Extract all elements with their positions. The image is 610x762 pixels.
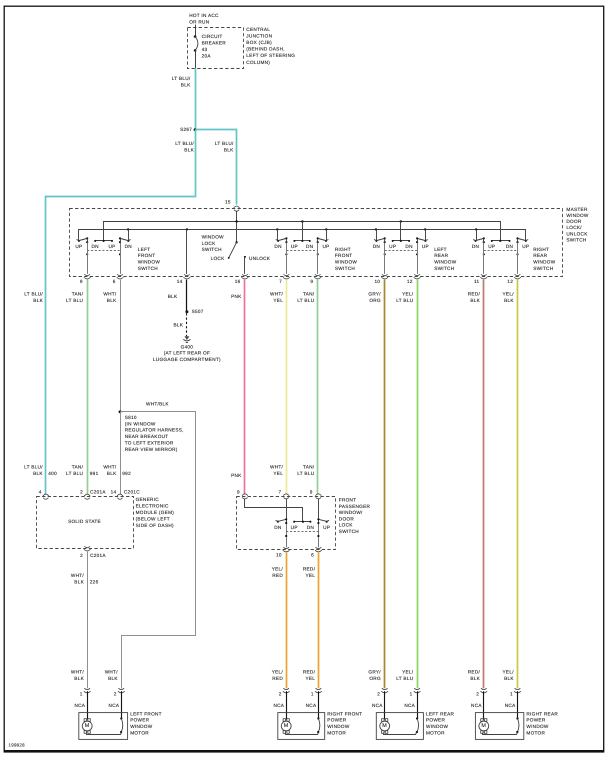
outer contact stubs from lower bus [128, 229, 130, 241]
svg-text:(BELOW LEFT: (BELOW LEFT [136, 517, 170, 522]
svg-text:S810: S810 [125, 415, 137, 420]
svg-text:15: 15 [225, 200, 231, 205]
svg-text:WINDOW: WINDOW [526, 724, 549, 729]
svg-text:TO LEFT EXTERIOR: TO LEFT EXTERIOR [125, 441, 174, 446]
svg-text:REGULATOR HARNESS,: REGULATOR HARNESS, [125, 428, 184, 433]
svg-text:NCA: NCA [74, 703, 85, 708]
wire BLK S507 to ground G400 [186, 313, 188, 336]
svg-text:BLK: BLK [504, 676, 514, 681]
svg-text:TAN/: TAN/ [303, 292, 315, 297]
svg-text:M: M [85, 723, 90, 729]
right front power window motor connector pins [284, 689, 289, 690]
svg-text:LOCK: LOCK [339, 523, 353, 528]
svg-text:LT BLU: LT BLU [297, 298, 314, 303]
svg-text:S507: S507 [192, 309, 204, 314]
power bus upper [104, 222, 501, 241]
svg-text:6: 6 [311, 553, 314, 558]
svg-text:SWITCH: SWITCH [566, 237, 586, 242]
left rear power window motor internal return path [416, 717, 418, 719]
svg-text:RED/: RED/ [303, 566, 316, 571]
wire RED/BLK pin 11 to right rear motor [483, 280, 485, 689]
svg-text:14: 14 [111, 489, 117, 494]
svg-text:NCA: NCA [273, 703, 284, 708]
svg-text:MOTOR: MOTOR [327, 730, 346, 735]
svg-text:RIGHT: RIGHT [335, 247, 351, 252]
svg-text:TAN/: TAN/ [303, 464, 315, 469]
svg-text:LT BLU: LT BLU [66, 471, 83, 476]
svg-text:FRONT: FRONT [339, 498, 357, 503]
master switch pin 16 [242, 275, 247, 276]
svg-text:M: M [284, 723, 289, 729]
svg-text:BLK: BLK [470, 676, 480, 681]
svg-text:BLK: BLK [504, 298, 514, 303]
svg-text:RED/: RED/ [468, 669, 481, 674]
svg-text:992: 992 [122, 471, 131, 476]
svg-text:SWITCH: SWITCH [533, 266, 553, 271]
svg-text:MOTOR: MOTOR [526, 730, 545, 735]
svg-text:OR RUN: OR RUN [189, 19, 209, 24]
svg-text:LT BLU/: LT BLU/ [172, 76, 191, 81]
svg-text:C201A: C201A [90, 489, 106, 494]
wire TAN/LT BLU pin 9 to front passenger switch [317, 280, 319, 494]
svg-text:DN: DN [274, 244, 281, 249]
svg-text:12: 12 [407, 279, 413, 284]
wire LT BLU/BLK from CJB down to splice S267 [195, 68, 197, 130]
svg-text:BLK: BLK [74, 676, 84, 681]
svg-text:YEL: YEL [273, 471, 283, 476]
svg-text:RED/: RED/ [303, 669, 316, 674]
svg-text:1: 1 [410, 692, 413, 697]
svg-text:RIGHT FRONT: RIGHT FRONT [327, 711, 362, 716]
svg-text:TAN/: TAN/ [72, 292, 84, 297]
svg-text:2: 2 [80, 553, 83, 558]
svg-text:9: 9 [310, 279, 313, 284]
svg-text:(BEHIND DASH,: (BEHIND DASH, [246, 47, 285, 52]
ground stub from lower bus to pin 14 [186, 229, 188, 274]
svg-text:2: 2 [377, 692, 380, 697]
svg-text:991: 991 [90, 471, 99, 476]
svg-text:SWITCH: SWITCH [202, 247, 222, 252]
right front power window motor leads [286, 691, 288, 719]
wire LT BLU/BLK branch from S267 to window lock switch pin 15 [196, 130, 237, 205]
svg-text:2: 2 [80, 489, 83, 494]
wire YEL/RED pin 10 to right front motor [286, 553, 288, 689]
svg-text:1: 1 [510, 692, 513, 697]
svg-text:LOCK/: LOCK/ [566, 225, 582, 230]
svg-text:C201C: C201C [124, 489, 140, 494]
svg-text:WINDOW: WINDOW [335, 260, 358, 265]
svg-text:FRONT: FRONT [335, 253, 353, 258]
svg-text:6: 6 [113, 279, 116, 284]
power bus lower [79, 230, 526, 241]
svg-text:DOOR: DOOR [566, 219, 582, 224]
svg-text:YEL/: YEL/ [272, 566, 284, 571]
svg-text:WINDOW: WINDOW [130, 724, 153, 729]
svg-text:JUNCTION: JUNCTION [246, 34, 272, 39]
svg-text:2: 2 [114, 692, 117, 697]
svg-text:BREAKER: BREAKER [202, 40, 227, 45]
svg-text:4: 4 [39, 489, 42, 494]
svg-text:BLK: BLK [224, 147, 234, 152]
left front power window motor leads [87, 691, 89, 719]
svg-text:400: 400 [48, 471, 57, 476]
svg-text:LEFT: LEFT [138, 247, 151, 252]
svg-text:WHT/BLK: WHT/BLK [146, 402, 169, 407]
svg-text:LEFT: LEFT [434, 247, 447, 252]
svg-text:1: 1 [80, 692, 83, 697]
svg-text:BLK: BLK [33, 471, 43, 476]
bus junction dots [235, 220, 237, 222]
left front power window motor box [79, 713, 128, 740]
left rear window switch rocker contacts and blades [393, 240, 409, 242]
splice S810 [119, 410, 122, 413]
svg-text:DN: DN [125, 244, 132, 249]
svg-text:S267: S267 [180, 127, 192, 132]
master window/door lock switch dashed box [70, 209, 563, 277]
svg-text:2: 2 [476, 692, 479, 697]
svg-text:GRY/: GRY/ [368, 292, 381, 297]
svg-text:WINDOW/: WINDOW/ [339, 510, 363, 515]
svg-text:WHT/: WHT/ [103, 464, 117, 469]
svg-text:LUGGAGE COMPARTMENT): LUGGAGE COMPARTMENT) [153, 357, 221, 362]
right rear window switch rocker contacts and blades [492, 240, 510, 242]
svg-text:199828: 199828 [9, 743, 26, 748]
front passenger switch pins 10 and 6 [284, 548, 289, 549]
svg-text:YEL: YEL [273, 298, 283, 303]
svg-text:YEL: YEL [305, 573, 315, 578]
svg-text:POWER: POWER [130, 718, 149, 723]
svg-text:9: 9 [80, 279, 83, 284]
svg-text:LT BLU/: LT BLU/ [175, 141, 194, 146]
svg-text:YEL: YEL [305, 676, 315, 681]
svg-text:POWER: POWER [327, 718, 346, 723]
svg-text:BLK: BLK [33, 298, 43, 303]
wire WHT/BLK pin 6 to splice S810 [120, 280, 122, 412]
svg-text:DN: DN [506, 244, 513, 249]
svg-text:C201A: C201A [90, 553, 106, 558]
svg-text:NCA: NCA [109, 703, 120, 708]
master switch pin 10 [382, 275, 387, 276]
svg-text:BLK: BLK [108, 676, 118, 681]
svg-text:RED: RED [272, 573, 283, 578]
GEM output pin 2 C201A [85, 547, 90, 548]
master switch pin 6 [117, 275, 122, 276]
right rear power window motor connector pins [481, 689, 486, 690]
left front power window motor armature [82, 721, 92, 731]
svg-text:RIGHT REAR: RIGHT REAR [526, 711, 558, 716]
svg-text:WINDOW: WINDOW [426, 724, 449, 729]
splice S267 [194, 128, 197, 131]
svg-text:10: 10 [276, 553, 282, 558]
svg-text:WINDOW: WINDOW [434, 260, 457, 265]
svg-text:BLK: BLK [181, 83, 191, 88]
svg-text:MOTOR: MOTOR [130, 730, 149, 735]
svg-text:DN: DN [373, 244, 380, 249]
svg-text:MOTOR: MOTOR [426, 730, 445, 735]
svg-text:BLK: BLK [168, 294, 178, 299]
svg-text:7: 7 [279, 489, 282, 494]
svg-text:(AT LEFT REAR OF: (AT LEFT REAR OF [164, 351, 210, 356]
wire WHT/YEL pin 7 to front passenger switch [286, 280, 288, 494]
centre-tie feeds from upper bus [302, 222, 304, 241]
svg-text:WINDOW: WINDOW [566, 213, 589, 218]
central junction box dashed outline [188, 28, 244, 69]
right rear power window motor internal return path [516, 717, 518, 719]
svg-text:MODULE (GEM): MODULE (GEM) [136, 510, 175, 515]
svg-text:POWER: POWER [526, 718, 545, 723]
wire WHT/BLK S810 to GEM pin 14 [120, 412, 122, 494]
svg-text:UP: UP [422, 244, 429, 249]
svg-text:1: 1 [311, 692, 314, 697]
svg-text:BOX (CJB): BOX (CJB) [246, 40, 272, 45]
svg-text:14: 14 [177, 279, 183, 284]
svg-text:20A: 20A [202, 53, 212, 58]
svg-text:RED: RED [272, 676, 283, 681]
svg-text:LOCK: LOCK [211, 256, 225, 261]
svg-text:YEL/: YEL/ [402, 669, 414, 674]
svg-text:UNLOCK: UNLOCK [566, 231, 588, 236]
svg-text:NCA: NCA [505, 703, 516, 708]
svg-text:SWITCH: SWITCH [138, 266, 158, 271]
svg-text:LT BLU: LT BLU [297, 471, 314, 476]
svg-text:SWITCH: SWITCH [335, 266, 355, 271]
svg-text:11: 11 [474, 279, 480, 284]
wire from hot feed into breaker [195, 25, 197, 37]
svg-text:10: 10 [375, 279, 381, 284]
svg-text:YEL/: YEL/ [503, 292, 515, 297]
wire YEL/LT BLU pin 12 to left rear motor [417, 280, 419, 689]
svg-text:WHT/: WHT/ [71, 669, 85, 674]
svg-text:PASSENGER: PASSENGER [339, 504, 371, 509]
window lock switch [235, 241, 237, 243]
svg-text:GENERIC: GENERIC [136, 497, 160, 502]
wire WHT/BLK 226 GEM to left front motor [87, 552, 89, 689]
svg-text:REAR: REAR [533, 253, 547, 258]
front passenger window/door lock switch dashed box [237, 497, 336, 550]
pink feed elbow inside switch [245, 499, 303, 522]
svg-text:G400: G400 [181, 344, 194, 349]
svg-text:FRONT: FRONT [138, 253, 156, 258]
svg-text:GRY/: GRY/ [368, 669, 381, 674]
svg-text:LT BLU: LT BLU [66, 298, 83, 303]
svg-text:BLK: BLK [470, 298, 480, 303]
svg-text:LT BLU: LT BLU [396, 298, 413, 303]
svg-text:NCA: NCA [372, 703, 383, 708]
right rear power window motor armature [479, 721, 489, 731]
svg-text:DN: DN [92, 244, 99, 249]
left rear power window motor leads [384, 691, 386, 719]
svg-text:12: 12 [507, 279, 513, 284]
svg-text:WHT/: WHT/ [270, 464, 284, 469]
svg-text:WINDOW: WINDOW [138, 260, 161, 265]
svg-text:YEL/: YEL/ [503, 669, 515, 674]
svg-text:REAR VIEW MIRROR): REAR VIEW MIRROR) [125, 447, 178, 452]
svg-text:DN: DN [405, 244, 412, 249]
svg-text:7: 7 [279, 279, 282, 284]
svg-text:HOT IN ACC: HOT IN ACC [189, 13, 219, 18]
svg-text:PNK: PNK [231, 473, 242, 478]
svg-text:M: M [481, 723, 486, 729]
svg-text:UP: UP [488, 244, 495, 249]
svg-text:DN: DN [274, 525, 281, 530]
svg-text:WHT/: WHT/ [103, 292, 117, 297]
svg-text:DN: DN [306, 244, 313, 249]
svg-text:UP: UP [75, 244, 82, 249]
svg-text:BLK: BLK [107, 298, 117, 303]
master switch pin 9 [315, 275, 320, 276]
svg-text:TAN/: TAN/ [72, 464, 84, 469]
svg-text:WINDOW: WINDOW [202, 234, 225, 239]
svg-text:YEL/: YEL/ [272, 669, 284, 674]
svg-text:LT BLU/: LT BLU/ [215, 141, 234, 146]
svg-text:MASTER: MASTER [566, 207, 588, 212]
right rear power window motor leads [483, 691, 485, 719]
svg-text:WHT/: WHT/ [270, 292, 284, 297]
svg-text:RED/: RED/ [468, 292, 481, 297]
svg-text:YEL/: YEL/ [402, 292, 414, 297]
svg-text:UP: UP [389, 244, 396, 249]
svg-text:M: M [382, 723, 387, 729]
left front window switch rocker contacts and blades [95, 240, 112, 242]
svg-text:LT BLU/: LT BLU/ [24, 464, 43, 469]
master switch pin 12 [415, 275, 420, 276]
svg-text:UP: UP [291, 244, 298, 249]
svg-text:DN: DN [307, 525, 314, 530]
wire WHT/BLK S810 branch to left front motor [121, 412, 196, 689]
master switch pin 7 [284, 275, 289, 276]
left rear power window motor armature [380, 721, 390, 731]
svg-text:DN: DN [472, 244, 479, 249]
svg-text:UP: UP [322, 244, 329, 249]
wire LT BLU/BLK from S267 down and left to GEM [46, 130, 196, 495]
ground G400 [185, 336, 190, 340]
right front power window motor box [278, 713, 325, 740]
wire YEL/BLK pin 12 to right rear motor [517, 280, 519, 689]
left front power window motor internal return path [120, 717, 122, 719]
wire breaker to box edge [195, 50, 197, 68]
svg-text:SOLID STATE: SOLID STATE [68, 519, 101, 524]
svg-text:COLUMN): COLUMN) [246, 60, 270, 65]
svg-text:LT BLU/: LT BLU/ [24, 292, 43, 297]
left rear power window motor box [376, 713, 423, 740]
svg-text:BLK: BLK [107, 471, 117, 476]
svg-text:PNK: PNK [231, 294, 242, 299]
svg-text:NCA: NCA [471, 703, 482, 708]
svg-text:UP: UP [291, 525, 298, 530]
svg-text:ELECTRONIC: ELECTRONIC [136, 504, 169, 509]
svg-text:REAR: REAR [434, 253, 448, 258]
svg-text:SIDE OF DASH): SIDE OF DASH) [136, 523, 174, 528]
svg-text:BLK: BLK [173, 323, 183, 328]
svg-text:LT BLU: LT BLU [396, 676, 413, 681]
svg-text:LEFT REAR: LEFT REAR [426, 711, 455, 716]
svg-text:LOCK: LOCK [202, 241, 216, 246]
svg-text:WINDOW: WINDOW [327, 724, 350, 729]
master switch pin 11 [481, 275, 486, 276]
front passenger switch wiper verticals [286, 499, 288, 524]
svg-text:NEAR BREAKOUT: NEAR BREAKOUT [125, 434, 169, 439]
wire GRY/ORG pin 10 to left rear motor [384, 280, 386, 689]
svg-text:WHT/: WHT/ [71, 573, 85, 578]
svg-text:RIGHT: RIGHT [533, 247, 549, 252]
svg-text:NCA: NCA [404, 703, 415, 708]
svg-text:BLK: BLK [74, 579, 84, 584]
master switch pin 9 [85, 275, 90, 276]
master switch pin 12 [515, 275, 520, 276]
svg-text:UP: UP [323, 525, 330, 530]
svg-text:NCA: NCA [306, 703, 317, 708]
svg-text:43: 43 [202, 47, 208, 52]
wire PNK pin 16 to front passenger switch [244, 280, 246, 494]
svg-text:WHT/: WHT/ [105, 669, 119, 674]
wire pin 15 to power bus [236, 211, 238, 242]
svg-text:WINDOW: WINDOW [533, 260, 556, 265]
wire RED/YEL pin 6 to right front motor [318, 553, 320, 689]
generic electronic module dashed box [37, 497, 134, 549]
right rear power window motor box [475, 713, 523, 740]
left front switch wiper outputs to pins 9 and 6 [87, 238, 89, 243]
wire TAN/LT BLU pin 9 to GEM [87, 280, 89, 494]
svg-text:UP: UP [108, 244, 115, 249]
svg-text:9: 9 [237, 489, 240, 494]
left rear power window motor connector pins [382, 689, 387, 690]
svg-text:DOOR: DOOR [339, 516, 355, 521]
svg-text:226: 226 [90, 579, 99, 584]
svg-text:SWITCH: SWITCH [434, 266, 454, 271]
left front power window motor connector pins [85, 689, 90, 690]
svg-text:SWITCH: SWITCH [339, 529, 359, 534]
svg-text:9: 9 [310, 489, 313, 494]
svg-text:(IN WINDOW: (IN WINDOW [125, 421, 156, 426]
circuit breaker 43 20A symbol [194, 35, 197, 38]
wire BLK pin 14 to splice S507 [186, 280, 188, 312]
svg-text:LEFT OF STEERING: LEFT OF STEERING [246, 53, 295, 58]
master switch pin 14 [184, 275, 189, 276]
svg-text:POWER: POWER [426, 718, 445, 723]
svg-text:CIRCUIT: CIRCUIT [202, 34, 223, 39]
splice S507 [185, 310, 188, 313]
right front window switch rocker contacts and blades [294, 240, 309, 242]
svg-text:2: 2 [279, 692, 282, 697]
svg-text:LEFT FRONT: LEFT FRONT [130, 711, 162, 716]
svg-text:BLK: BLK [184, 147, 194, 152]
svg-text:ORG: ORG [369, 676, 381, 681]
right front power window motor internal return path [317, 717, 319, 719]
svg-text:ORG: ORG [369, 298, 381, 303]
front passenger switch rocker contacts and blades [294, 521, 310, 523]
svg-text:UP: UP [522, 244, 529, 249]
svg-text:16: 16 [235, 279, 241, 284]
right front power window motor armature [281, 721, 291, 731]
svg-text:UNLOCK: UNLOCK [249, 256, 271, 261]
svg-text:CENTRAL: CENTRAL [246, 27, 270, 32]
